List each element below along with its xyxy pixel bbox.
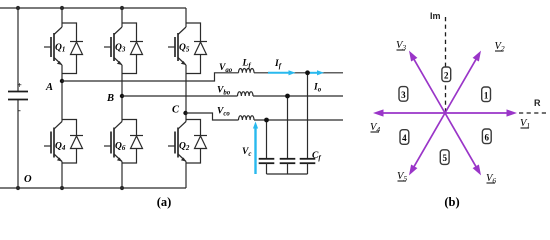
- svg-text:A: A: [45, 82, 53, 93]
- IGBT Q2: [168, 122, 190, 162]
- capacitor DC-link: [8, 81, 28, 115]
- wire bottom DC- rail (node O): [0, 187, 186, 189]
- freewheel diode of Q5: [186, 23, 207, 74]
- vector V5: [397, 113, 445, 183]
- node B: [106, 93, 124, 104]
- svg-text:2: 2: [444, 70, 449, 80]
- wire emitter of Q6 to bottom rail: [121, 162, 123, 189]
- wire emitter of Q4 to bottom rail: [61, 162, 63, 189]
- axis R (dashed horizontal): [519, 112, 546, 114]
- svg-text:R: R: [534, 98, 541, 108]
- junction top rail x=18: [16, 6, 20, 10]
- svg-text:5: 5: [442, 153, 447, 163]
- IGBT Q1: [44, 8, 65, 65]
- svg-text:Q3: Q3: [115, 43, 126, 54]
- junction phase A tap: [305, 70, 310, 75]
- svg-text:(b): (b): [444, 195, 459, 209]
- svg-text:Q4: Q4: [55, 142, 66, 153]
- wire phase B output: [122, 95, 238, 97]
- IGBT Q5: [168, 8, 190, 65]
- inductor Lf phase C: [239, 116, 255, 120]
- sector 1 box: [482, 87, 491, 102]
- sector 6 box: [482, 129, 491, 144]
- current If cyan segment: [268, 70, 296, 75]
- sector 3 box: [399, 87, 408, 102]
- junction top rail x=62: [60, 6, 64, 10]
- inductor Lf phase A: [239, 69, 255, 73]
- wire capacitor common tie: [267, 173, 308, 175]
- IGBT Q6: [104, 122, 126, 162]
- axis Im (dashed vertical): [445, 17, 447, 113]
- arrow Vc (capacitor voltage, cyan): [253, 122, 258, 175]
- junction top rail x=122: [120, 6, 124, 10]
- svg-text:O: O: [24, 174, 32, 185]
- wire phase B after inductor: [253, 95, 343, 97]
- sector 4 box: [400, 130, 409, 145]
- svg-text:C: C: [172, 105, 180, 116]
- freewheel diode of Q3: [122, 23, 143, 74]
- wire node B to filter cap: [287, 96, 289, 159]
- wire phase C after inductor: [254, 119, 343, 121]
- svg-text:B: B: [106, 93, 114, 104]
- freewheel diode of Q1: [62, 23, 83, 74]
- wire emitter of Q3 to node: [121, 65, 123, 96]
- wire node C to filter cap: [266, 120, 268, 159]
- capacitor Cf phase at x=287.5: [280, 159, 296, 174]
- junction bottom rail x=62: [60, 186, 64, 190]
- vector V6: [445, 113, 496, 185]
- wire emitter of Q5 to node: [185, 65, 187, 113]
- node C: [172, 105, 188, 116]
- freewheel diode of Q6: [122, 120, 143, 164]
- wire phase A output: [62, 73, 239, 81]
- IGBT Q3: [104, 8, 126, 65]
- svg-text:3: 3: [401, 90, 406, 100]
- capacitor Cf phase at x=266.5: [259, 159, 275, 174]
- wire node to collector of Q6: [121, 96, 123, 122]
- sector 2 box: [442, 67, 451, 82]
- capacitor Cf phase at x=307.5: [300, 159, 316, 174]
- freewheel diode of Q4: [62, 120, 83, 164]
- junction phase B tap: [285, 94, 290, 99]
- junction bottom rail x=122: [120, 186, 124, 190]
- svg-text:Q5: Q5: [179, 43, 190, 54]
- sector 5 box: [440, 150, 449, 165]
- svg-text:(a): (a): [157, 195, 172, 209]
- wire emitter of Q2 to bottom rail: [185, 162, 187, 189]
- wire phase A after inductor: [254, 72, 343, 74]
- svg-text:-: -: [18, 106, 21, 115]
- wire phase C output: [186, 113, 239, 120]
- svg-text:Q1: Q1: [55, 43, 65, 54]
- junction bottom rail x=18: [16, 186, 20, 190]
- vector V3: [396, 40, 445, 113]
- svg-text:Im: Im: [430, 11, 441, 21]
- freewheel diode of Q2: [186, 120, 207, 164]
- svg-text:4: 4: [402, 133, 407, 143]
- wire node to collector of Q4: [61, 81, 63, 122]
- wire emitter of Q1 to node: [61, 65, 63, 81]
- svg-text:Q2: Q2: [179, 142, 190, 153]
- current Io cyan segment after node: [310, 70, 324, 75]
- wire node to collector of Q2: [185, 113, 187, 122]
- svg-text:+: +: [17, 81, 22, 90]
- IGBT Q4: [44, 122, 66, 162]
- inductor Lf phase B: [238, 92, 254, 96]
- wire node A to filter cap: [307, 73, 309, 159]
- svg-text:6: 6: [485, 132, 490, 142]
- node A: [45, 79, 64, 93]
- svg-text:1: 1: [484, 90, 489, 100]
- vector V2: [445, 41, 505, 113]
- vector V1: [445, 109, 530, 130]
- svg-text:Q6: Q6: [115, 142, 126, 153]
- wire DC-link capacitor branch: [17, 8, 19, 188]
- junction phase C tap: [264, 118, 269, 123]
- wire top DC+ rail: [0, 7, 186, 9]
- vector V4: [370, 109, 445, 134]
